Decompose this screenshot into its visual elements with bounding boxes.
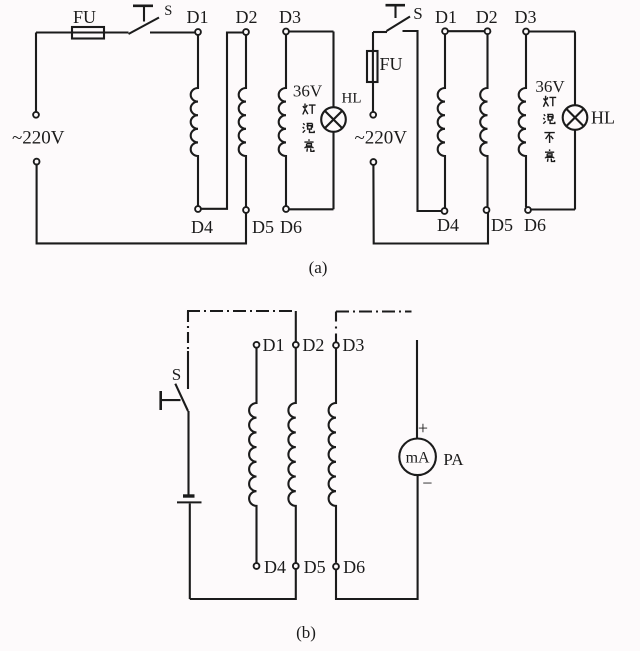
- winding 4 (D1-D4, right circuit): [438, 34, 445, 208]
- svg-text:D6: D6: [343, 557, 365, 577]
- svg-text:−: −: [422, 473, 432, 493]
- wire through fuse: [372, 51, 374, 82]
- wire: D1-D2 top link: [448, 30, 484, 32]
- svg-text:FU: FU: [73, 7, 96, 27]
- svg-text:D3: D3: [279, 7, 301, 27]
- svg-text:S: S: [413, 4, 422, 23]
- fuse FU (left circuit): [72, 27, 104, 39]
- svg-text:36V: 36V: [293, 82, 323, 101]
- svg-text:HL: HL: [591, 108, 615, 128]
- svg-text:S: S: [172, 365, 181, 384]
- winding 1 (D1-D4, left circuit): [191, 35, 198, 206]
- switch S (left circuit): blade: [129, 18, 160, 35]
- svg-text:D2: D2: [302, 335, 324, 355]
- winding 1 (D1-D4, b): [249, 348, 256, 563]
- node D6 (left) terminal circle: [283, 206, 289, 212]
- source terminal bottom (left ~220V): [34, 159, 40, 165]
- svg-text:PA: PA: [443, 450, 464, 469]
- wire: top wire from source to switch: [36, 31, 129, 33]
- wire: lamp bottom to D6: [289, 208, 333, 210]
- wire: lamp lower lead (right): [574, 130, 576, 210]
- wire: D2 riser: [295, 311, 297, 342]
- svg-text:36V: 36V: [535, 77, 565, 96]
- wire: bottom wire battery to D5 lead: [190, 569, 296, 599]
- winding 2 (D2-D5, b): [288, 348, 295, 563]
- node D1 (right) terminal circle: [442, 28, 448, 34]
- winding 5 (D2-D5, right circuit): [480, 34, 487, 207]
- svg-text:D4: D4: [264, 557, 286, 577]
- label 不 (right circuit): [544, 133, 554, 143]
- wire: battery to bottom wire: [189, 504, 191, 600]
- source terminal top (left ~220V): [33, 112, 39, 118]
- svg-text:(b): (b): [296, 623, 316, 642]
- svg-text:D6: D6: [524, 215, 546, 235]
- winding 3 (D3-D6, b): [329, 349, 336, 563]
- node D3 (left) terminal circle: [283, 29, 289, 35]
- source terminal bottom (right ~220V): [371, 159, 377, 165]
- lamp HL (left circuit, lit): [321, 107, 346, 132]
- node D4 (b) terminal circle: [254, 563, 260, 569]
- switch S (b): blade: [175, 384, 188, 411]
- wire: series link D4 to D2 (up the middle): [202, 33, 243, 209]
- wire: bottom return (right circuit) source to D5: [373, 165, 488, 243]
- wire: top dash-dot link D3 to meter branch: [336, 310, 412, 312]
- label 泡 (right circuit): [543, 114, 555, 123]
- winding 6 (D3-D6, right circuit): [519, 35, 526, 207]
- winding 2 (D2-D5, left circuit): [239, 35, 246, 207]
- svg-text:D5: D5: [304, 557, 326, 577]
- node D2 (right) terminal circle: [485, 28, 491, 34]
- fuse FU (right circuit): [367, 51, 378, 82]
- svg-text:D3: D3: [342, 335, 364, 355]
- wire: fuse to source top terminal: [372, 82, 374, 111]
- node D6 (right) terminal circle: [525, 207, 531, 213]
- svg-text:D5: D5: [491, 215, 513, 235]
- svg-text:D1: D1: [435, 7, 457, 27]
- source terminal top (right ~220V): [370, 112, 376, 118]
- battery GB: long thin plate: [177, 501, 202, 503]
- battery GB: short thick plate: [183, 494, 195, 497]
- wire: lamp branch lower lead: [332, 132, 334, 210]
- svg-text:S: S: [164, 3, 172, 19]
- svg-text:D3: D3: [515, 7, 537, 27]
- node D1 (b) terminal circle: [254, 342, 260, 348]
- wire: top dash-dot link battery to D2 riser: [187, 310, 296, 312]
- svg-text:D1: D1: [263, 335, 285, 355]
- node D4 (left) terminal circle: [195, 206, 201, 212]
- svg-text:D1: D1: [187, 7, 209, 27]
- switch S fixed contact bar: [133, 5, 153, 8]
- svg-text:FU: FU: [380, 54, 403, 74]
- wire: lamp upper lead (right): [574, 32, 576, 106]
- node D5 (left) terminal circle: [243, 207, 249, 213]
- winding 3 (D3-D6, left circuit): [279, 35, 286, 207]
- node D3 (right) terminal circle: [523, 29, 529, 35]
- svg-text:D5: D5: [252, 217, 274, 237]
- switch S fixed contact stem: [394, 5, 396, 18]
- node D5 (b) terminal circle: [293, 563, 299, 569]
- wire: left vertical from top wire to source top terminal: [35, 33, 37, 112]
- wire: left vertical solid to switch: [187, 351, 189, 389]
- wire: lamp bottom to D6 (right): [531, 208, 575, 210]
- node D3 (b) terminal circle: [333, 342, 339, 348]
- svg-text:D4: D4: [191, 217, 213, 237]
- wire: bottom return wire (left circuit): [37, 165, 246, 243]
- wire: meter branch vertical upper: [416, 340, 418, 439]
- svg-text:(a): (a): [309, 258, 328, 277]
- wire: D3 to lamp (right): [529, 30, 575, 32]
- wire: switch to battery: [187, 411, 189, 495]
- label 亮 (left circuit): [304, 139, 314, 151]
- svg-text:mA: mA: [406, 450, 430, 467]
- switch S (b): fixed contact horizontal: [161, 399, 181, 401]
- wire: corner down to fuse top: [372, 32, 374, 51]
- svg-text:D4: D4: [437, 215, 459, 235]
- wire: D6 lead down and bottom wire to meter: [336, 476, 418, 600]
- label 亮 (right circuit): [545, 149, 555, 161]
- svg-text:D2: D2: [476, 7, 498, 27]
- svg-text:~220V: ~220V: [12, 128, 65, 149]
- node D4 (right) terminal circle: [442, 208, 448, 214]
- switch S (b): fixed contact vertical bar: [159, 391, 162, 410]
- wire: blade to left corner: [373, 31, 387, 33]
- label 灯 (left circuit): [303, 104, 316, 115]
- svg-text:~220V: ~220V: [355, 128, 408, 149]
- label 灯 (right circuit): [543, 96, 556, 107]
- svg-text:D2: D2: [236, 7, 258, 27]
- wire: lamp branch upper lead: [332, 32, 334, 108]
- node D1 (left) terminal circle: [195, 29, 201, 35]
- wire: D3 to lamp branch top: [289, 30, 333, 32]
- node D2 (left) terminal circle: [243, 29, 249, 35]
- ammeter PA (mA): [399, 439, 436, 476]
- label 泡 (left circuit): [303, 123, 315, 132]
- node D6 (b) terminal circle: [333, 564, 339, 570]
- switch S fixed contact stem: [143, 6, 145, 22]
- node D5 (right) terminal circle: [484, 207, 490, 213]
- switch S (right circuit): fixed contact bar: [386, 4, 406, 7]
- switch S blade (right circuit): [387, 17, 411, 32]
- wire: D3 riser (dash): [335, 312, 337, 342]
- node D2 (b) terminal circle: [293, 342, 299, 348]
- lamp HL (right circuit, not lit): [563, 105, 588, 130]
- wire: switch other side to right-down vertical: [403, 31, 442, 211]
- svg-text:HL: HL: [342, 91, 362, 107]
- wire: left vertical dash-dot part: [187, 311, 189, 351]
- svg-text:+: +: [418, 418, 428, 438]
- svg-text:D6: D6: [280, 217, 302, 237]
- wire: switch to node D1: [150, 31, 195, 33]
